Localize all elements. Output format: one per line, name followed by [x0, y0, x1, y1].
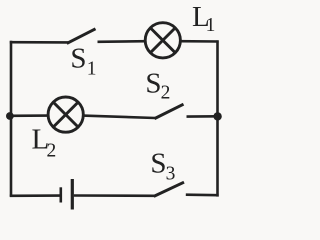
- label S1: [70, 42, 96, 79]
- wire: middle branch left segment to lamp L2: [10, 114, 49, 117]
- lamp L1: [145, 23, 180, 58]
- wire: left vertical: [10, 41, 13, 197]
- lamp L2: [48, 97, 83, 132]
- svg-text:1: 1: [206, 15, 216, 36]
- svg-text:3: 3: [166, 163, 176, 184]
- battery: negative plate (short): [59, 187, 62, 202]
- wire: S1 right contact to lamp L1: [98, 40, 147, 43]
- svg-text:S: S: [145, 67, 161, 99]
- label L2: [32, 123, 57, 161]
- wire: S2 right contact to right junction: [187, 115, 219, 118]
- wire: bottom left corner to battery: [10, 194, 60, 197]
- label S3: [150, 147, 175, 184]
- svg-text:S: S: [70, 42, 86, 74]
- svg-text:2: 2: [161, 82, 171, 103]
- wire: top from left corner to switch S1: [10, 41, 68, 44]
- wire: lamp L1 to right corner: [180, 40, 219, 43]
- svg-text:2: 2: [47, 140, 57, 161]
- switch S2 blade (open): [155, 104, 184, 118]
- wire: right vertical: [216, 40, 219, 196]
- battery: positive plate (long): [71, 179, 74, 210]
- node: left junction of middle branch: [6, 112, 14, 120]
- switch S3 blade (open): [154, 182, 184, 196]
- svg-text:S: S: [150, 147, 166, 179]
- wire: S3 right contact to bottom right corner: [186, 193, 219, 196]
- node: right junction of middle branch: [213, 112, 221, 120]
- wire: battery to switch S3: [74, 194, 155, 197]
- label L1: [192, 1, 215, 36]
- wire: lamp L2 to switch S2: [83, 116, 156, 118]
- label S2: [145, 67, 170, 103]
- switch S1 blade (open): [67, 29, 96, 44]
- svg-text:1: 1: [87, 58, 97, 79]
